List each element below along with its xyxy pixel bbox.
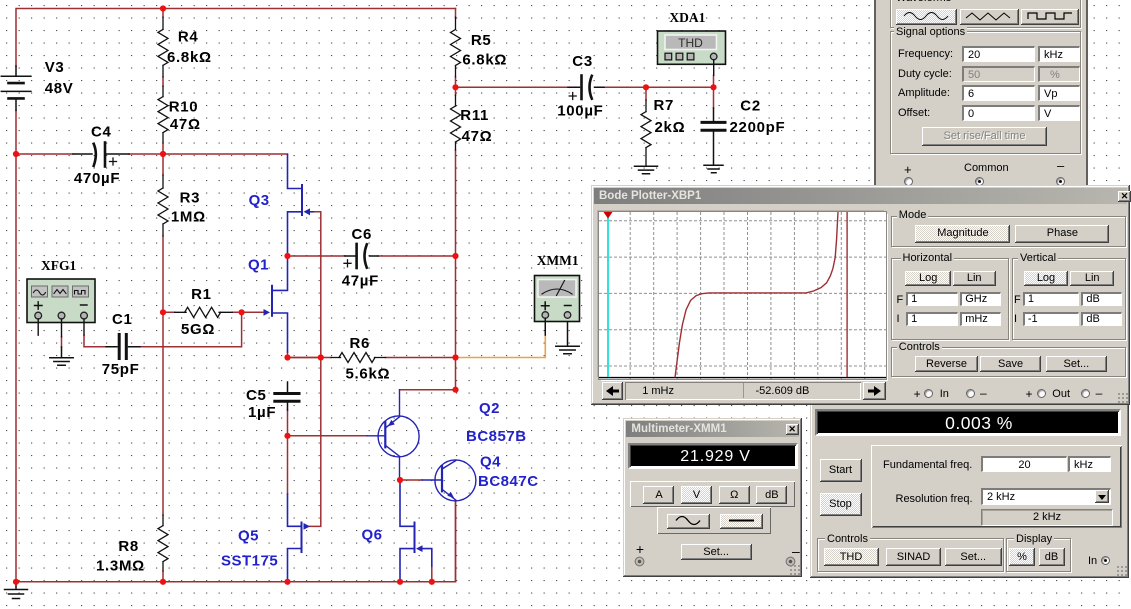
da black display 0.003 % xyxy=(815,409,1121,437)
horizontal group xyxy=(891,258,1009,340)
capacitor C6 xyxy=(344,244,378,268)
plus label xyxy=(636,543,644,555)
svg-text:BC857B: BC857B xyxy=(466,428,527,445)
junction node bottom rail Q6 source xyxy=(397,579,403,585)
junction node bottom rail Q5 xyxy=(284,579,290,585)
svg-text:1µF: 1µF xyxy=(248,404,276,421)
percent button (selected) xyxy=(1009,548,1035,566)
waveforms group remnant xyxy=(890,0,1081,28)
svg-text:Q6: Q6 xyxy=(362,527,383,544)
svg-text:6.8kΩ: 6.8kΩ xyxy=(167,49,212,66)
svg-text:R3: R3 xyxy=(180,190,201,207)
plus terminal socket xyxy=(634,556,645,567)
controls group xyxy=(891,347,1126,377)
wire Q6 gate to rail xyxy=(431,565,433,582)
wire C1 net XFG1 to R1 right node xyxy=(84,312,242,346)
settings frame xyxy=(871,445,1122,529)
horizontal lin button xyxy=(953,271,996,286)
battery V3 xyxy=(1,66,31,110)
junction node R6 output rail xyxy=(452,354,458,360)
wire C3 XDA row xyxy=(456,75,714,108)
instrument icon XDA1 xyxy=(658,31,726,75)
transistor Q1 jfet xyxy=(272,257,288,353)
instrument icon XMM1 xyxy=(535,276,580,336)
horizontal F row xyxy=(897,294,904,306)
svg-text:XFG1: XFG1 xyxy=(41,258,76,273)
mode group xyxy=(891,216,1126,247)
transistor Q5 jfet xyxy=(288,494,302,581)
THD button (selected) xyxy=(824,548,879,566)
wire R column segments xyxy=(162,9,164,582)
wire bottom rail xyxy=(16,501,456,582)
horizontal log button (selected) xyxy=(905,271,951,286)
offset row xyxy=(898,107,930,119)
resistor R5 xyxy=(451,17,461,77)
square waveform button xyxy=(1021,9,1079,25)
junction node C4 R10 R3 xyxy=(160,151,166,157)
svg-text:100µF: 100µF xyxy=(557,103,603,120)
svg-text:R6: R6 xyxy=(350,335,371,352)
multimeter title bar xyxy=(626,421,799,437)
svg-text:C6: C6 xyxy=(352,226,373,243)
svg-text:R11: R11 xyxy=(460,107,489,124)
svg-text:R8: R8 xyxy=(118,538,139,555)
svg-text:XDA1: XDA1 xyxy=(669,10,705,25)
bode plot area xyxy=(599,212,886,379)
junction node Q2 emitter output xyxy=(452,387,458,393)
junction node Q3 Q1 C6 xyxy=(284,253,290,259)
minus label xyxy=(792,545,800,557)
svg-text:C2: C2 xyxy=(740,98,761,115)
svg-text:R7: R7 xyxy=(654,97,675,114)
multimeter display 21.929 V xyxy=(628,443,797,470)
wire R6 row xyxy=(287,357,456,359)
resistor R6 xyxy=(331,353,386,363)
terminal radios xyxy=(904,177,913,186)
SINAD button xyxy=(886,548,941,566)
svg-text:Q4: Q4 xyxy=(480,454,501,471)
multimeter window XMM1 xyxy=(623,418,802,577)
junction node Q2 collector Q4 base xyxy=(397,477,403,483)
triangle waveform button xyxy=(960,9,1019,25)
svg-text:BC847C: BC847C xyxy=(478,473,539,490)
resistor R8 xyxy=(158,515,168,571)
in out terminal row xyxy=(914,388,921,400)
wire XFG1 mid red segment xyxy=(61,337,63,347)
plot gridlines xyxy=(599,212,886,379)
svg-text:5.6kΩ: 5.6kΩ xyxy=(346,366,391,383)
wire C5 node to Q2 base xyxy=(288,435,368,437)
svg-text:Q2: Q2 xyxy=(479,400,500,417)
nav freq readout xyxy=(642,385,674,397)
wire orange XMM1 probe xyxy=(456,335,546,358)
ohm button xyxy=(719,486,750,504)
magnitude button (selected) xyxy=(915,225,1010,243)
svg-text:R5: R5 xyxy=(471,32,492,49)
svg-text:Q3: Q3 xyxy=(249,192,270,209)
capacitor C1 xyxy=(106,335,140,359)
junction node Q1 source R6 C5 xyxy=(284,354,290,360)
set button xyxy=(1046,356,1107,373)
AC button xyxy=(667,514,710,529)
svg-text:75pF: 75pF xyxy=(102,361,140,378)
controls group xyxy=(817,538,1004,572)
vertical F row xyxy=(1014,294,1021,306)
nav readout panel xyxy=(625,382,860,400)
minus terminal socket xyxy=(785,556,796,567)
svg-text:C5: C5 xyxy=(246,387,267,404)
svg-text:1MΩ: 1MΩ xyxy=(171,208,206,225)
svg-text:R4: R4 xyxy=(178,28,199,45)
vertical group xyxy=(1012,258,1126,340)
V button (selected) xyxy=(681,486,712,504)
svg-text:2kΩ: 2kΩ xyxy=(655,119,686,136)
junction node V3 C4 xyxy=(13,151,19,157)
wire R5 column xyxy=(455,9,457,582)
wire top rail V3 to R5 xyxy=(16,9,456,67)
plot cyan cursor line xyxy=(607,212,609,377)
ground bottom left xyxy=(5,582,28,599)
start button xyxy=(820,459,862,482)
resistor R1 xyxy=(175,307,233,317)
wire C6 row xyxy=(288,255,456,257)
svg-text:V3: V3 xyxy=(45,59,65,76)
vertical I row xyxy=(1014,313,1017,325)
svg-text:470µF: 470µF xyxy=(74,170,120,187)
combo arrow button xyxy=(1095,490,1109,503)
svg-text:R1: R1 xyxy=(191,286,212,303)
junction node Q3 gate net R6 xyxy=(318,354,324,360)
svg-text:C3: C3 xyxy=(572,53,593,70)
stop button xyxy=(820,493,862,516)
junction node bottom rail left xyxy=(13,579,19,585)
transistor Q3 jfet xyxy=(288,155,314,256)
mode buttons frame xyxy=(630,481,795,507)
vertical log button (selected) xyxy=(1024,271,1069,286)
bode close button xyxy=(1118,191,1131,202)
distortion analyzer window XDA1 (title hidden behind bode plotter) xyxy=(810,402,1129,578)
plot response curve xyxy=(675,212,838,378)
svg-text:48V: 48V xyxy=(45,80,74,97)
capacitor C3 xyxy=(568,76,604,100)
junction node bottom rail Q6 gate xyxy=(429,579,435,585)
resistor R3 xyxy=(158,175,168,236)
resistor R10 xyxy=(158,86,168,143)
DC button (selected) xyxy=(720,514,763,529)
svg-text:THD: THD xyxy=(678,36,703,50)
svg-text:5GΩ: 5GΩ xyxy=(181,321,215,338)
svg-text:XMM1: XMM1 xyxy=(537,253,579,268)
junction node R1 C1 Q1 gate xyxy=(239,309,245,315)
svg-text:C4: C4 xyxy=(91,124,112,141)
resistor R4 xyxy=(158,17,168,77)
plot cursor marker triangle xyxy=(604,212,613,219)
horizontal I row xyxy=(897,313,900,325)
display group xyxy=(1006,538,1071,572)
wire XMM1 plus stub xyxy=(544,318,546,335)
wire left rail V3 minus down to bottom rail xyxy=(15,110,17,581)
dB button xyxy=(756,486,787,504)
Set button xyxy=(945,548,1002,566)
bode plotter window XBP1 xyxy=(591,185,1130,405)
fundamental freq row xyxy=(883,459,972,471)
svg-text:47µF: 47µF xyxy=(342,273,379,290)
ground R7 xyxy=(635,166,658,174)
signal options group xyxy=(890,31,1081,154)
transistor Q2 pnp xyxy=(367,390,419,478)
ground XFG1 xyxy=(50,347,73,365)
resistor R11 xyxy=(451,95,461,150)
nav db readout xyxy=(756,385,810,397)
resistor R7 xyxy=(641,100,651,166)
svg-text:6.8kΩ: 6.8kΩ xyxy=(462,52,507,69)
amplitude row xyxy=(898,87,950,99)
plot bottom axis xyxy=(599,377,886,379)
bode title bar xyxy=(594,188,1127,204)
junction node R3 R1 xyxy=(160,309,166,315)
transistor Q4 npn xyxy=(422,460,476,501)
capacitor C5 xyxy=(275,382,299,410)
vertical lin button xyxy=(1070,271,1114,286)
set button xyxy=(681,544,752,560)
wire Q2 collector to Q4 base xyxy=(400,479,422,481)
result box 2 kHz xyxy=(981,509,1113,526)
svg-text:SST175: SST175 xyxy=(221,553,278,570)
svg-text:Q5: Q5 xyxy=(238,528,259,545)
junction node C6 R11 rail xyxy=(452,253,458,259)
reverse button xyxy=(915,356,977,373)
wire Q3 gate to Q5 gate xyxy=(308,212,321,527)
junction node XDA1 C2 xyxy=(710,84,716,90)
transistor Q6 jfet xyxy=(400,478,432,581)
function generator panel XFG1 (partially visible top right) xyxy=(874,0,1088,186)
In radio xyxy=(1088,555,1097,567)
svg-text:2200pF: 2200pF xyxy=(730,119,786,136)
common labels xyxy=(904,164,912,176)
duty cycle row (disabled) xyxy=(898,68,952,80)
A button xyxy=(643,486,674,504)
dB button xyxy=(1039,548,1065,566)
plot resonance return line xyxy=(846,212,848,377)
junction node R5 R11 C3 xyxy=(452,84,458,90)
svg-text:47Ω: 47Ω xyxy=(170,116,201,133)
frequency row xyxy=(898,48,953,60)
svg-text:Q1: Q1 xyxy=(248,257,269,274)
wire C5 node column xyxy=(288,352,321,494)
set rise/fall time button (disabled) xyxy=(922,127,1047,146)
junction node bottom rail R8 xyxy=(160,579,166,585)
phase button xyxy=(1015,225,1109,243)
ac dc frame xyxy=(657,507,771,534)
capacitor C2 xyxy=(702,108,725,165)
nav left arrow button xyxy=(602,382,624,400)
save button xyxy=(980,356,1041,373)
svg-text:47Ω: 47Ω xyxy=(462,128,493,145)
instrument icon XFG1 xyxy=(27,279,95,337)
wire Q2 emitter jog xyxy=(400,389,456,391)
ground XMM1 xyxy=(556,319,579,354)
wire C4 row xyxy=(16,153,163,155)
junction node C3 R7 xyxy=(643,84,649,90)
resolution freq row xyxy=(896,493,973,505)
nav right arrow button xyxy=(863,382,886,400)
svg-text:R10: R10 xyxy=(169,99,199,116)
multimeter close button xyxy=(786,424,799,435)
wire node154 to Q3 drain xyxy=(163,153,288,155)
junction node top rail R4 xyxy=(160,5,166,11)
sine waveform button (selected) xyxy=(896,9,957,25)
junction node C5 Q2 base Q5 drain xyxy=(284,433,290,439)
svg-text:1.3MΩ: 1.3MΩ xyxy=(96,558,145,575)
ground C2 xyxy=(704,165,723,173)
capacitor C4 xyxy=(73,143,129,167)
svg-text:C1: C1 xyxy=(112,311,133,328)
wire R1 row xyxy=(163,311,265,313)
